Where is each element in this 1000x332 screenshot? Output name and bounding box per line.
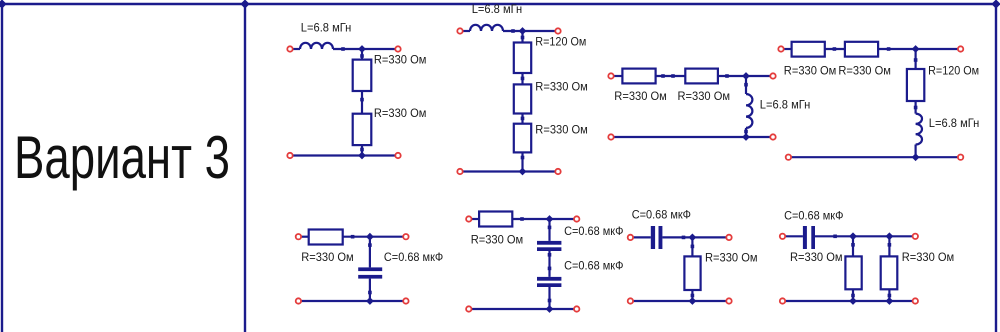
svg-text:R=330 Ом: R=330 Ом: [705, 251, 758, 265]
svg-text:R=330 Ом: R=330 Ом: [614, 89, 667, 103]
svg-text:R=120 Ом: R=120 Ом: [928, 63, 979, 77]
svg-text:L=6.8 мГн: L=6.8 мГн: [472, 2, 523, 16]
svg-text:R=120 Ом: R=120 Ом: [535, 34, 586, 48]
svg-text:L=6.8 мГн: L=6.8 мГн: [301, 20, 352, 34]
svg-text:R=330 Ом: R=330 Ом: [902, 250, 955, 264]
svg-text:R=330 Ом: R=330 Ом: [678, 89, 731, 103]
svg-text:R=330 Ом: R=330 Ом: [535, 80, 588, 94]
svg-text:Вариант 3: Вариант 3: [14, 124, 230, 191]
svg-text:C=0.68 мкФ: C=0.68 мкФ: [564, 224, 623, 238]
svg-text:C=0.68 мкФ: C=0.68 мкФ: [784, 209, 843, 223]
svg-text:R=330 Ом: R=330 Ом: [471, 233, 524, 247]
svg-text:C=0.68 мкФ: C=0.68 мкФ: [564, 259, 623, 273]
svg-text:R=330 Ом: R=330 Ом: [790, 250, 843, 264]
svg-text:R=330 Ом: R=330 Ом: [301, 250, 354, 264]
svg-text:R=330 Ом: R=330 Ом: [535, 123, 588, 137]
svg-text:L=6.8 мГн: L=6.8 мГн: [929, 116, 980, 130]
svg-text:R=330 Ом: R=330 Ом: [374, 53, 427, 67]
svg-text:C=0.68 мкФ: C=0.68 мкФ: [632, 208, 691, 222]
svg-text:R=330 Ом: R=330 Ом: [838, 63, 891, 77]
svg-text:R=330 Ом: R=330 Ом: [374, 106, 427, 120]
svg-text:L=6.8 мГн: L=6.8 мГн: [760, 98, 811, 112]
svg-text:R=330 Ом: R=330 Ом: [784, 63, 837, 77]
svg-text:C=0.68 мкФ: C=0.68 мкФ: [384, 250, 443, 264]
